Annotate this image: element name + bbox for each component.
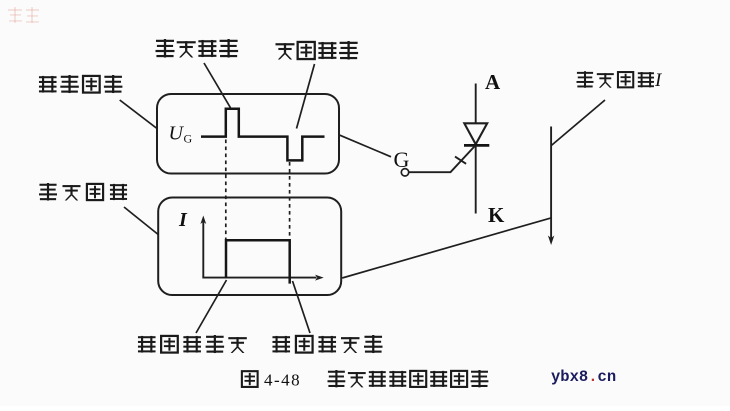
svg-text:U: U [169, 123, 185, 145]
svg-text:G: G [184, 132, 193, 146]
svg-text:K: K [488, 203, 505, 227]
svg-text:A: A [485, 70, 501, 94]
svg-text:4-48: 4-48 [264, 370, 301, 389]
svg-text:G: G [394, 147, 410, 172]
svg-text:I: I [654, 70, 663, 91]
svg-text:ybx8.cn: ybx8.cn [551, 368, 616, 386]
svg-text:I: I [178, 209, 188, 231]
